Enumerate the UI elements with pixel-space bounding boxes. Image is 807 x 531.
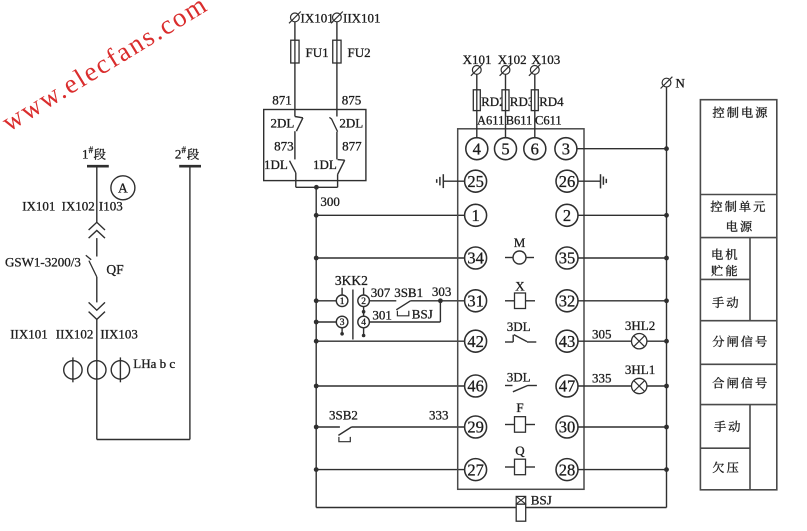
svg-text:32: 32	[559, 291, 576, 310]
pin 32	[556, 290, 578, 312]
svg-text:2: 2	[361, 297, 366, 307]
svg-text:1DL: 1DL	[264, 157, 288, 172]
svg-text:2: 2	[175, 147, 182, 162]
svg-text:#: #	[182, 145, 187, 155]
svg-text:QF: QF	[106, 262, 124, 277]
svg-text:1: 1	[471, 206, 479, 225]
pin 28	[556, 459, 578, 481]
svg-text:3HL2: 3HL2	[625, 318, 655, 333]
svg-text:3KK2: 3KK2	[335, 273, 368, 288]
svg-text:M: M	[514, 235, 526, 250]
svg-text:X102: X102	[498, 52, 527, 67]
svg-text:3SB1: 3SB1	[394, 285, 423, 300]
switch contact 2	[358, 288, 370, 307]
svg-text:FU1: FU1	[306, 45, 329, 60]
terminal N	[661, 76, 686, 91]
pin 31	[465, 290, 487, 312]
pin 30	[556, 416, 578, 438]
wire to pin 42	[314, 339, 465, 344]
pin 25	[465, 170, 487, 192]
svg-text:X103: X103	[531, 52, 560, 67]
pin 4	[466, 138, 488, 160]
svg-text:BSJ: BSJ	[412, 307, 433, 322]
svg-text:IIX103: IIX103	[100, 327, 138, 342]
svg-text:LHa b c: LHa b c	[133, 356, 175, 371]
lamp 3HL1 wire 335	[578, 362, 655, 386]
contact 3DL (pins 42-43)	[505, 319, 536, 342]
wire	[336, 22, 338, 40]
svg-text:4: 4	[473, 139, 481, 158]
svg-text:IIX102: IIX102	[56, 327, 94, 342]
wire N rail	[666, 87, 668, 508]
node IX101 IX102 I103 labels	[22, 199, 123, 214]
svg-text:871: 871	[272, 93, 292, 108]
pin 5	[495, 138, 517, 160]
svg-text:6: 6	[531, 139, 539, 158]
svg-text:IX101: IX101	[22, 199, 55, 214]
wire pin2 to N	[578, 213, 669, 218]
svg-text:307: 307	[371, 285, 391, 300]
wire bottom return to bus2	[97, 166, 190, 439]
svg-text:3: 3	[340, 318, 345, 328]
svg-text:IX101: IX101	[301, 11, 334, 26]
contact 2DL (right)	[329, 116, 363, 132]
svg-text:3DL: 3DL	[507, 370, 531, 385]
svg-text:2DL: 2DL	[270, 116, 294, 131]
svg-text:29: 29	[467, 418, 484, 437]
svg-text:5: 5	[501, 139, 509, 158]
svg-text:A611: A611	[477, 113, 504, 127]
pin 34	[465, 247, 487, 269]
lamp 3HL2	[632, 334, 669, 349]
contact 1DL (right)	[313, 157, 345, 174]
breaker QF	[5, 255, 124, 278]
svg-text:47: 47	[559, 377, 576, 396]
svg-text:27: 27	[467, 460, 484, 479]
svg-text:4: 4	[361, 318, 366, 328]
drawout plug symbol (upper)	[89, 222, 105, 238]
pin 3	[555, 138, 577, 160]
svg-text:A: A	[118, 180, 128, 195]
motor M	[505, 235, 534, 264]
wire	[96, 319, 98, 439]
svg-text:B611: B611	[506, 113, 533, 127]
terminal IX101	[289, 11, 334, 26]
svg-text:31: 31	[467, 291, 484, 310]
fuse FU1	[291, 40, 329, 63]
svg-text:BSJ: BSJ	[531, 493, 552, 508]
svg-text:3SB2: 3SB2	[329, 408, 358, 423]
svg-text:1: 1	[340, 297, 345, 307]
wire pin35 to N	[578, 256, 669, 261]
wire pin30 to N	[578, 425, 669, 430]
pin 2	[556, 204, 578, 226]
svg-text:GSW1-3200/3: GSW1-3200/3	[5, 255, 81, 270]
svg-text:877: 877	[342, 139, 362, 154]
svg-text:3DL: 3DL	[507, 319, 531, 334]
pushbutton 3SB1	[369, 285, 423, 316]
wire to pin 34	[314, 256, 465, 261]
svg-text:43: 43	[559, 332, 576, 351]
label 分闸信号	[713, 336, 725, 347]
svg-text:X: X	[515, 279, 525, 294]
svg-text:X101: X101	[463, 52, 492, 67]
current transformer LHb	[88, 361, 106, 379]
svg-text:2: 2	[563, 206, 571, 225]
wire 300 rail	[315, 187, 317, 507]
current transformer LHc	[111, 357, 129, 382]
svg-text:2DL: 2DL	[339, 116, 363, 131]
svg-text:IIX101: IIX101	[10, 327, 48, 342]
wire 875	[337, 63, 361, 117]
lamp 3HL1	[632, 378, 669, 393]
svg-text:N: N	[676, 76, 686, 91]
svg-text:3HL1: 3HL1	[625, 362, 655, 377]
svg-text:26: 26	[559, 172, 576, 191]
lamp 3HL2 wire 305	[578, 318, 655, 341]
fuse FU2	[333, 40, 371, 63]
terminal X101	[463, 52, 492, 76]
svg-text:333: 333	[429, 408, 449, 423]
pin 35	[556, 247, 578, 269]
switch contact 3	[336, 316, 348, 335]
pin 43	[556, 330, 578, 352]
fuse RD2	[473, 90, 505, 111]
wire to pin 27	[314, 467, 465, 472]
svg-text:RD4: RD4	[539, 94, 564, 109]
pin 47	[556, 375, 578, 397]
wire pin28 to N	[578, 467, 669, 472]
fuse RD3	[502, 90, 534, 111]
svg-text:301: 301	[372, 308, 392, 323]
current transformer LHa	[64, 357, 82, 382]
svg-text:335: 335	[592, 370, 612, 385]
svg-text:30: 30	[559, 418, 576, 437]
wire	[476, 74, 478, 90]
pin 29	[465, 416, 487, 438]
svg-text:3: 3	[562, 139, 570, 158]
wire	[96, 238, 98, 256]
drawout plug symbol (lower)	[89, 302, 105, 319]
wire to pin 1	[314, 213, 465, 218]
switch contact 4	[358, 307, 370, 338]
relay BSJ	[516, 493, 552, 522]
pin 27	[465, 459, 487, 481]
svg-text:Q: Q	[515, 443, 525, 458]
contact 1DL (left)	[264, 157, 296, 173]
pin 26	[556, 170, 578, 192]
relay coil Q	[505, 443, 535, 475]
svg-text:34: 34	[467, 249, 484, 268]
svg-text:46: 46	[467, 377, 484, 396]
pin 46	[465, 375, 487, 397]
wire 871	[272, 63, 295, 117]
wire C611	[535, 111, 562, 138]
wire A611	[477, 111, 505, 138]
label 合闸信号	[713, 377, 724, 388]
wire 303	[411, 284, 465, 303]
node IIX101 IIX102 IIX103 labels	[10, 327, 138, 342]
wire pin32 to N	[578, 298, 669, 303]
svg-text:303: 303	[432, 284, 452, 299]
svg-text:300: 300	[320, 194, 340, 209]
fuse RD4	[531, 90, 564, 111]
label 手动	[712, 297, 724, 308]
svg-text:F: F	[516, 400, 523, 415]
ammeter A	[111, 176, 135, 200]
wire	[96, 277, 98, 303]
wire	[294, 22, 296, 40]
right legend table	[700, 100, 776, 490]
node 1#段 busbar	[82, 145, 109, 166]
pin 42	[465, 330, 487, 352]
label 手动	[714, 421, 726, 432]
node 2#段 busbar	[175, 145, 201, 166]
terminal IIX101	[331, 11, 381, 26]
wire	[534, 74, 536, 90]
pin 6	[524, 138, 546, 160]
relay coil X	[505, 279, 535, 309]
switch contact 1	[336, 288, 348, 307]
contact 3DL (pins 46-47)	[505, 370, 537, 392]
svg-text:305: 305	[592, 327, 612, 342]
wire junction 300	[296, 173, 340, 209]
contact BSJ branch wire 301	[369, 301, 440, 323]
wire to pin 46	[314, 384, 465, 389]
svg-text:1: 1	[82, 147, 89, 162]
control unit block outline	[458, 129, 584, 490]
svg-text:IX102: IX102	[62, 199, 95, 214]
switch separator bar	[352, 290, 354, 340]
wire B611	[506, 111, 533, 138]
wire bus1 down	[96, 166, 98, 222]
svg-text:42: 42	[467, 332, 484, 351]
label 控制电源	[713, 107, 725, 118]
terminal X102	[498, 52, 527, 76]
pushbutton 3SB2	[314, 408, 465, 442]
svg-text:875: 875	[342, 93, 362, 108]
svg-text:35: 35	[559, 249, 576, 268]
svg-text:#: #	[89, 145, 94, 155]
wire bottom rail	[316, 507, 666, 509]
wire	[505, 74, 507, 90]
ground (right of pin 26)	[578, 174, 606, 188]
terminal X103	[529, 52, 560, 76]
svg-text:28: 28	[559, 460, 576, 479]
wire pin3 to N	[577, 146, 669, 151]
DL contact box	[264, 110, 366, 181]
relay coil F	[505, 400, 535, 432]
pin 1	[465, 204, 487, 226]
svg-text:873: 873	[274, 139, 294, 154]
contact 2DL (left)	[270, 116, 302, 132]
svg-text:FU2: FU2	[348, 45, 371, 60]
label 控制单元电源	[711, 201, 723, 212]
ground (left of pin 25)	[437, 174, 465, 188]
label 873 877	[274, 139, 362, 154]
wire	[314, 298, 336, 303]
svg-text:25: 25	[467, 172, 484, 191]
wire	[314, 320, 336, 325]
label 欠压	[713, 462, 724, 473]
svg-text:1DL: 1DL	[313, 157, 337, 172]
svg-text:C611: C611	[535, 113, 562, 127]
svg-text:I103: I103	[99, 199, 123, 214]
wire	[294, 131, 296, 159]
wire	[336, 132, 338, 160]
label 电机贮能	[713, 249, 723, 260]
svg-text:IIX101: IIX101	[343, 11, 381, 26]
